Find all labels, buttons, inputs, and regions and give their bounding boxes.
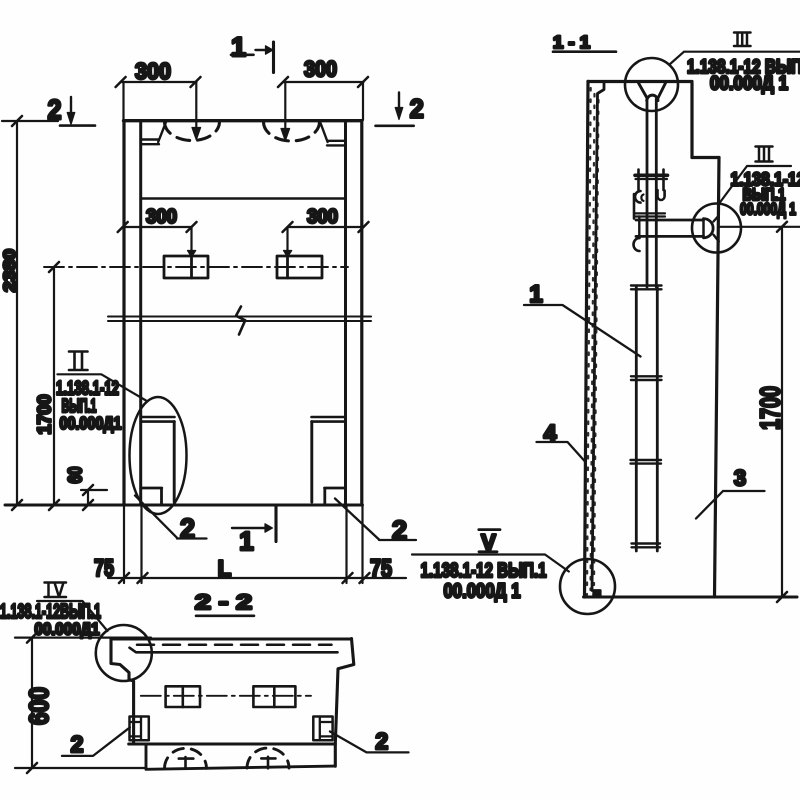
right anchor plate xyxy=(277,256,322,278)
detail circle V xyxy=(560,559,615,614)
left anchor plate 2-2 xyxy=(166,686,200,707)
body bottom line xyxy=(129,743,336,746)
svg-text:00.000Д1: 00.000Д1 xyxy=(35,620,100,639)
stipple on band xyxy=(587,88,599,595)
clamp jaws xyxy=(639,170,664,192)
clamp side bar below xyxy=(638,217,640,239)
step xyxy=(692,156,719,159)
right lifting loop dashed arc xyxy=(264,122,320,141)
bottom edge xyxy=(584,596,798,599)
left lifting loop dashed arc xyxy=(165,122,220,140)
left channel top bar xyxy=(141,417,175,422)
detail circle right (pin) xyxy=(692,204,741,253)
svg-text:300: 300 xyxy=(307,206,338,228)
svg-text:1700: 1700 xyxy=(35,395,55,435)
1700 right dim line xyxy=(781,227,783,597)
60 dim line xyxy=(87,490,89,505)
svg-text:3: 3 xyxy=(734,466,746,491)
pin (horizontal sleeve) xyxy=(636,220,704,236)
centerline 2-2 xyxy=(141,695,311,697)
left top notch ledge xyxy=(141,123,166,145)
leader 2 bottom-left xyxy=(135,496,207,539)
panel right inner edge xyxy=(344,122,347,506)
right hidden loop arc xyxy=(247,748,289,768)
svg-text:75: 75 xyxy=(94,555,114,582)
label III second xyxy=(756,147,773,162)
label III first xyxy=(734,33,751,47)
svg-text:2: 2 xyxy=(392,515,407,545)
svg-text:00.000Д 1: 00.000Д 1 xyxy=(740,200,796,219)
1700 dim line left xyxy=(53,267,55,505)
svg-text:00.000Д 1: 00.000Д 1 xyxy=(444,580,521,603)
rod wide bar xyxy=(636,287,657,551)
left band inner edge with top notch and bottom foot xyxy=(592,82,604,597)
1700 right top extension xyxy=(719,226,800,228)
panel top edge xyxy=(124,119,362,122)
bottom dim line 75 L 75 xyxy=(108,577,406,579)
section mark 1 bottom xyxy=(274,506,277,542)
panel left inner edge xyxy=(139,122,142,506)
left channel 2-2 xyxy=(130,717,149,741)
svg-text:2: 2 xyxy=(410,94,424,124)
svg-text:2: 2 xyxy=(71,731,84,757)
clamp left hook xyxy=(635,191,641,203)
2380 dim line xyxy=(16,121,18,505)
right top notch ledge xyxy=(321,123,346,145)
right bevel edge xyxy=(335,639,354,767)
upper right edge xyxy=(690,83,693,158)
dashed flange line xyxy=(137,644,332,647)
svg-text:300: 300 xyxy=(146,206,177,228)
inner flange line xyxy=(130,648,338,653)
break lines xyxy=(108,317,371,322)
right channel foot xyxy=(325,488,346,504)
left notch outline xyxy=(111,639,134,744)
right channel side xyxy=(310,422,313,502)
clamp lower rung xyxy=(635,213,665,216)
svg-text:1: 1 xyxy=(239,526,253,556)
V leader shelf xyxy=(412,555,569,572)
svg-text:600: 600 xyxy=(24,687,54,725)
left loop position arrow xyxy=(195,82,197,129)
leader 2 bottom-right xyxy=(335,499,416,541)
svg-text:2380: 2380 xyxy=(0,249,19,292)
600 bottom extension xyxy=(15,767,146,769)
svg-text:300: 300 xyxy=(304,57,337,82)
detail label II xyxy=(69,352,88,371)
rod rungs xyxy=(631,286,662,290)
svg-text:00.000Д1: 00.000Д1 xyxy=(60,413,122,433)
svg-text:75: 75 xyxy=(370,555,392,583)
lifting loop xyxy=(639,83,666,98)
ticks mid dim xyxy=(118,222,369,232)
section top edge xyxy=(111,637,352,640)
mid dim arrows to anchors xyxy=(190,227,192,253)
break zigzag xyxy=(236,307,245,335)
band foot wedge xyxy=(593,591,600,596)
panel left outer edge xyxy=(122,121,125,505)
svg-text:2: 2 xyxy=(48,94,62,125)
clamp rung thick xyxy=(635,174,668,178)
svg-text:1 - 1: 1 - 1 xyxy=(553,32,590,52)
right channel 2-2 xyxy=(313,717,332,741)
clamp right hook xyxy=(658,190,665,200)
clamp lower hook xyxy=(634,238,640,251)
svg-text:1700: 1700 xyxy=(755,386,786,430)
panel right outer edge xyxy=(360,121,363,505)
ticks top dim xyxy=(116,77,368,87)
600 top extension xyxy=(15,636,151,638)
svg-text:2: 2 xyxy=(375,728,388,754)
left channel foot xyxy=(141,488,162,504)
detail circle top (loop) xyxy=(625,58,678,111)
anchors centerline dash-dot xyxy=(44,266,348,268)
left channel side xyxy=(173,422,176,502)
bottom flange xyxy=(146,744,335,769)
svg-text:2: 2 xyxy=(180,513,195,544)
svg-text:1: 1 xyxy=(231,32,246,62)
rod legs xyxy=(647,99,656,287)
mid dimension line 300/300 xyxy=(123,226,364,228)
svg-text:300: 300 xyxy=(135,58,171,84)
svg-text:00.000Д 1: 00.000Д 1 xyxy=(710,74,788,95)
right channel top bar xyxy=(312,417,346,422)
detail circle IV xyxy=(96,625,152,681)
clamp left bar xyxy=(633,194,636,219)
svg-text:L: L xyxy=(218,556,231,581)
lower right edge xyxy=(715,158,720,598)
label IV xyxy=(45,583,67,598)
svg-text:60: 60 xyxy=(66,467,87,484)
600 dim line xyxy=(31,638,33,768)
top edge xyxy=(588,80,692,83)
left band outer edge xyxy=(585,81,589,597)
right loop position arrow xyxy=(284,82,286,130)
interior horizontal line xyxy=(141,197,345,200)
left anchor plate xyxy=(164,256,208,278)
left hidden loop arc xyxy=(165,748,207,768)
bottom extension verticals xyxy=(124,505,363,583)
top dimension line 300/300 xyxy=(121,81,364,83)
detail II capsule xyxy=(130,397,187,514)
panel bottom edge with left dim extension xyxy=(5,504,363,507)
top dim extension verticals xyxy=(124,82,364,120)
right anchor plate 2-2 xyxy=(253,686,295,707)
svg-text:2 - 2: 2 - 2 xyxy=(195,591,252,614)
